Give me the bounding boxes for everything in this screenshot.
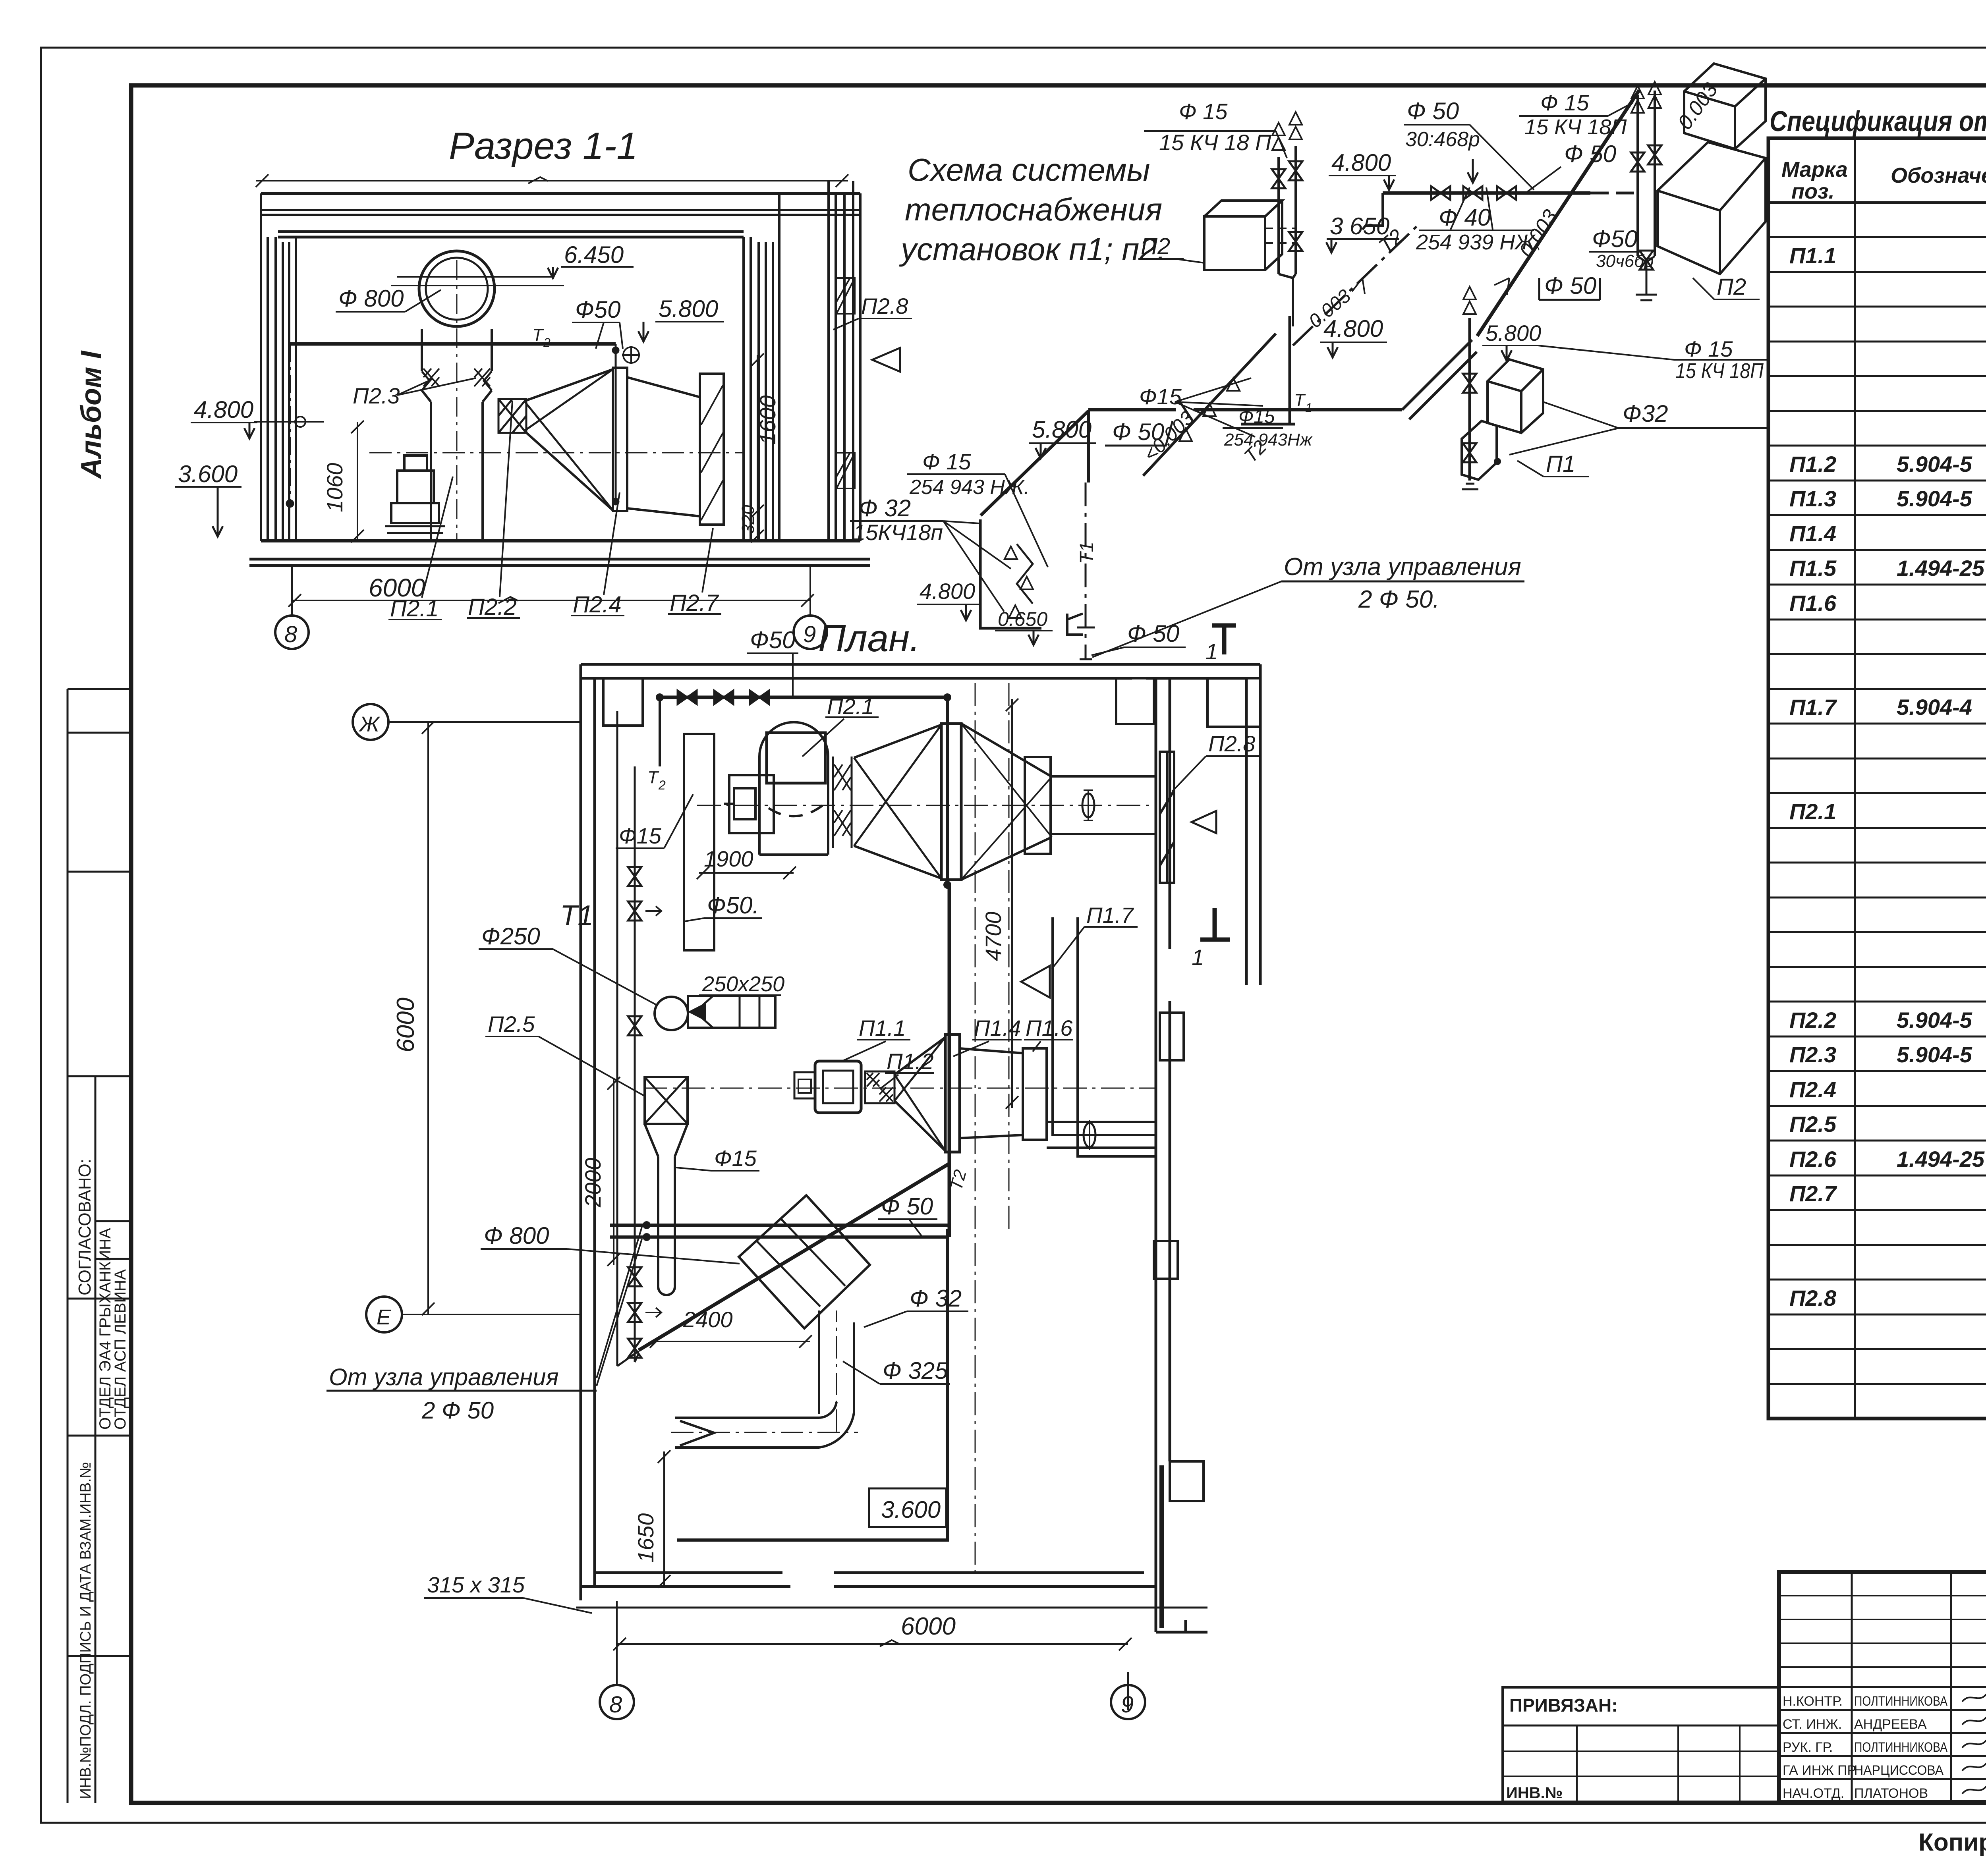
main valve pipe y486 <box>1383 191 1590 195</box>
level line 4.800 <box>254 421 324 423</box>
section marks 1-1 <box>1212 625 1236 654</box>
svg-text:Марка: Марка <box>1781 158 1848 181</box>
svg-text:Ф 50: Ф 50 <box>1127 620 1179 647</box>
view triangle right <box>872 348 900 372</box>
svg-text:Ф250: Ф250 <box>481 923 540 950</box>
svg-text:План.: План. <box>818 617 920 660</box>
svg-text:ПОЛТИННИКОВА: ПОЛТИННИКОВА <box>1854 1740 1947 1755</box>
filter П2.7 <box>700 374 724 525</box>
svg-text:Ф50: Ф50 <box>750 627 795 653</box>
svg-text:8: 8 <box>609 1692 622 1718</box>
spec table rows text <box>1789 208 1986 1380</box>
svg-text:Ф 800: Ф 800 <box>338 285 404 312</box>
double diagonal to riser3 <box>1402 340 1477 419</box>
svg-text:2: 2 <box>543 336 551 350</box>
Ф800 rotated duct <box>739 1195 870 1328</box>
bottom-left duct with elbow <box>675 1402 854 1448</box>
svg-text:2: 2 <box>658 778 666 792</box>
svg-text:Ф15: Ф15 <box>1139 384 1182 409</box>
svg-text:Альбом I: Альбом I <box>75 350 107 479</box>
svg-text:254 943Нж: 254 943Нж <box>1224 430 1313 450</box>
svg-text:П1.6: П1.6 <box>1026 1015 1073 1040</box>
svg-text:Ф50: Ф50 <box>1592 226 1637 252</box>
main diagonal <box>1477 90 1639 336</box>
svg-text:П1: П1 <box>1546 451 1575 477</box>
svg-text:Ф 15: Ф 15 <box>922 449 971 474</box>
svg-text:П2: П2 <box>1717 274 1746 300</box>
svg-text:От узла управления: От узла управления <box>1284 553 1521 581</box>
grid circles Ж, Е <box>353 704 388 740</box>
ground line bottom <box>576 1607 1207 1609</box>
svg-text:Спецификация отопительно-вент: Спецификация отопительно-вентиляционных … <box>1770 106 1986 137</box>
view triangle plan <box>1192 811 1216 833</box>
svg-text:установок п1; п2.: установок п1; п2. <box>899 232 1166 267</box>
svg-text:Копировал: Аргунова: Копировал: Аргунова <box>1918 1829 1986 1856</box>
top right unit box <box>1684 64 1766 149</box>
T1 vertical drop left <box>1087 410 1090 483</box>
svg-text:Ф 50: Ф 50 <box>1407 98 1459 124</box>
svg-text:8: 8 <box>284 621 297 647</box>
svg-text:поз.: поз. <box>1791 179 1835 203</box>
svg-text:2 Ф 50: 2 Ф 50 <box>421 1397 494 1424</box>
П1.2 flex <box>865 1071 894 1103</box>
mid right П2 unit box <box>1658 142 1766 274</box>
lower T2 valves <box>628 1267 641 1286</box>
elbow under main valve pipe <box>1362 193 1383 230</box>
svg-text:4700: 4700 <box>981 911 1006 961</box>
П1 cone <box>894 1035 1155 1152</box>
top dimension line <box>256 180 848 181</box>
svg-text:НАЧ.ОТД.: НАЧ.ОТД. <box>1783 1786 1844 1801</box>
svg-text:15 КЧ 18 П: 15 КЧ 18 П <box>1159 130 1271 155</box>
svg-text:П1.1: П1.1 <box>1789 243 1836 268</box>
svg-text:П2.8: П2.8 <box>861 293 908 318</box>
svg-text:5.904-5: 5.904-5 <box>1897 486 1972 511</box>
svg-text:П1.2: П1.2 <box>1789 452 1836 477</box>
svg-text:П2.1: П2.1 <box>1789 799 1836 824</box>
motor <box>729 775 774 833</box>
right wall window panel <box>1160 752 1174 883</box>
svg-text:3.600: 3.600 <box>881 1496 941 1523</box>
heater П2.4 <box>613 368 627 511</box>
section centerline <box>369 452 743 454</box>
svg-text:30:468р: 30:468р <box>1405 128 1480 151</box>
svg-text:Схема системы: Схема системы <box>908 152 1150 187</box>
dash continuation <box>1590 192 1634 195</box>
svg-text:4.800: 4.800 <box>194 396 253 423</box>
heater flex <box>498 399 526 433</box>
svg-text:Ф 50: Ф 50 <box>1544 272 1596 299</box>
door triangle П1.7 <box>1021 966 1050 998</box>
svg-text:5.904-4: 5.904-4 <box>1897 695 1972 720</box>
labels П1.x <box>859 903 1134 1074</box>
svg-text:15 КЧ 18П: 15 КЧ 18П <box>1524 115 1627 139</box>
svg-text:5.904-5: 5.904-5 <box>1897 1007 1972 1033</box>
svg-text:П1.7: П1.7 <box>1789 695 1837 720</box>
scheme title <box>899 152 1166 267</box>
T2 pipe in section <box>254 277 619 508</box>
riser Ф325 verticals <box>819 1310 854 1414</box>
T1 riser plan <box>946 697 949 885</box>
svg-text:П2.5: П2.5 <box>488 1011 535 1036</box>
svg-text:Ж: Ж <box>358 712 381 736</box>
svg-text:250х250: 250х250 <box>702 972 784 996</box>
svg-text:2000: 2000 <box>580 1158 605 1208</box>
svg-text:Ф15: Ф15 <box>619 823 662 848</box>
spec table header text <box>1781 158 1986 203</box>
svg-text:П1.5: П1.5 <box>1789 556 1837 581</box>
П1.1 unit <box>794 1061 861 1113</box>
svg-text:Ф32: Ф32 <box>1623 400 1668 427</box>
svg-text:П1.3: П1.3 <box>1789 486 1836 511</box>
corridor duct <box>1053 917 1155 1156</box>
svg-text:1600: 1600 <box>755 395 780 445</box>
svg-text:Т1: Т1 <box>560 900 593 932</box>
svg-text:5.904-5: 5.904-5 <box>1897 452 1972 477</box>
svg-text:15 КЧ 18П: 15 КЧ 18П <box>1675 359 1764 383</box>
signatures <box>1962 1693 1986 1794</box>
svg-text:ОТДЕЛ АСП ЛЕВИНА: ОТДЕЛ АСП ЛЕВИНА <box>112 1269 129 1430</box>
svg-text:НАРЦИССОВА: НАРЦИССОВА <box>1854 1763 1943 1778</box>
bottom leader labels <box>390 590 719 621</box>
svg-text:П2: П2 <box>1141 234 1170 259</box>
fan П2.1 circle <box>419 251 495 326</box>
privyazan block <box>1503 1687 1779 1802</box>
svg-text:Ф 32: Ф 32 <box>910 1285 962 1312</box>
big duct left П2.5 <box>645 734 714 1295</box>
svg-text:П2.6: П2.6 <box>1789 1146 1837 1172</box>
svg-text:1.494-25: 1.494-25 <box>1897 1146 1985 1172</box>
П1 boxes <box>1462 359 1543 489</box>
expanding cone with X brace <box>524 368 724 525</box>
svg-text:П2.8: П2.8 <box>1789 1285 1837 1310</box>
svg-text:5.800: 5.800 <box>659 295 718 322</box>
svg-text:30ч6бр: 30ч6бр <box>1596 251 1654 271</box>
svg-text:ПОЛТИННИКОВА: ПОЛТИННИКОВА <box>1854 1694 1947 1709</box>
svg-text:Т: Т <box>1294 390 1306 410</box>
svg-text:П2.7: П2.7 <box>1789 1181 1837 1206</box>
floor slab <box>261 539 860 542</box>
svg-text:П1.4: П1.4 <box>1789 521 1836 546</box>
svg-text:5.800: 5.800 <box>1486 320 1541 345</box>
fan casing / duct down <box>422 329 492 541</box>
spec table grid <box>1768 138 1986 1419</box>
п2 left unit box <box>1204 201 1295 270</box>
svg-text:1650: 1650 <box>633 1513 658 1563</box>
damper oval <box>1082 793 1094 817</box>
svg-text:Обозначение: Обозначение <box>1891 164 1986 187</box>
top heat pipe with valves <box>660 696 947 699</box>
svg-text:1060: 1060 <box>322 463 347 512</box>
svg-text:П2.2: П2.2 <box>468 594 517 620</box>
level line 6.450 <box>397 276 553 278</box>
svg-text:Т: Т <box>647 768 659 787</box>
svg-text:П2.8: П2.8 <box>1208 731 1255 756</box>
svg-text:ИНВ.№ПОДЛ. ПОДПИСЬ И ДАТА ВЗА: ИНВ.№ПОДЛ. ПОДПИСЬ И ДАТА ВЗАМ.ИНВ.№ <box>77 1462 94 1799</box>
svg-text:Ф 15: Ф 15 <box>1179 99 1228 124</box>
svg-text:СОГЛАСОВАНО:: СОГЛАСОВАНО: <box>75 1159 95 1295</box>
svg-text:4.800: 4.800 <box>920 579 975 604</box>
plan walls <box>581 664 1260 1632</box>
svg-text:Разрез 1-1: Разрез 1-1 <box>449 125 638 167</box>
svg-text:Ф 32: Ф 32 <box>859 495 911 521</box>
svg-text:ПРИВЯЗАН:: ПРИВЯЗАН: <box>1509 1695 1618 1716</box>
svg-text:П1.1: П1.1 <box>859 1015 906 1040</box>
supply diagonal from control node <box>981 411 1088 515</box>
column window hatches <box>837 278 855 488</box>
svg-text:Ф 15: Ф 15 <box>1684 336 1733 361</box>
svg-text:5.904-5: 5.904-5 <box>1897 1042 1972 1067</box>
heater П2.4 plan <box>941 724 961 880</box>
control node zigzag cluster <box>980 519 1041 628</box>
svg-text:П2.5: П2.5 <box>1789 1112 1837 1137</box>
svg-text:П2.7: П2.7 <box>670 590 719 616</box>
svg-text:Е: Е <box>377 1305 391 1329</box>
svg-text:П2.1: П2.1 <box>390 596 439 621</box>
roof slab <box>261 192 860 195</box>
sidebar rotated captions <box>75 1159 129 1799</box>
svg-text:СТ. ИНЖ.: СТ. ИНЖ. <box>1783 1717 1842 1732</box>
svg-text:П1.4: П1.4 <box>974 1015 1021 1040</box>
svg-text:1: 1 <box>1206 639 1218 664</box>
svg-text:П2.4: П2.4 <box>573 592 622 618</box>
svg-text:П1.7: П1.7 <box>1086 903 1134 928</box>
svg-text:От узла управления: От узла управления <box>329 1364 559 1390</box>
svg-text:Н.КОНТР.: Н.КОНТР. <box>1783 1694 1843 1709</box>
svg-text:Т1: Т1 <box>1076 542 1097 564</box>
svg-text:3.600: 3.600 <box>178 461 238 487</box>
pilasters <box>603 678 1260 1501</box>
svg-text:П2.2: П2.2 <box>1789 1007 1836 1033</box>
svg-text:Ф15: Ф15 <box>1238 406 1275 427</box>
title block outer <box>1779 1572 1986 1802</box>
round duct Ф250 with branch <box>655 997 688 1030</box>
plan centerline mid <box>643 1088 1155 1089</box>
svg-text:ГА ИНЖ ПР: ГА ИНЖ ПР <box>1783 1763 1856 1778</box>
3.600 box <box>869 1488 946 1527</box>
svg-text:Ф 325: Ф 325 <box>883 1357 948 1384</box>
svg-text:П2.4: П2.4 <box>1789 1077 1836 1102</box>
title block texts <box>1783 1602 1986 1801</box>
T2 pipes left <box>617 711 635 1366</box>
cone 1 with X <box>854 724 1155 880</box>
svg-text:5.800: 5.800 <box>1032 416 1092 443</box>
svg-text:ПЛАТОНОВ: ПЛАТОНОВ <box>1854 1786 1928 1801</box>
svg-text:П2.1: П2.1 <box>827 694 874 719</box>
plan centerline top <box>697 805 1155 806</box>
svg-text:6000: 6000 <box>392 998 419 1052</box>
T1 horizontal run <box>1088 408 1402 411</box>
riser 3 (П1) <box>1468 318 1471 481</box>
svg-text:1.494-25: 1.494-25 <box>1897 556 1985 581</box>
svg-text:1: 1 <box>1305 401 1312 415</box>
riser cluster left <box>1279 146 1296 326</box>
svg-text:АНДРЕЕВА: АНДРЕЕВА <box>1854 1717 1927 1732</box>
svg-text:2400: 2400 <box>683 1307 733 1332</box>
cone 2 <box>961 724 1052 880</box>
flex П2.2 plan <box>833 757 852 848</box>
fan centerline <box>456 260 458 541</box>
right outer column <box>829 181 860 541</box>
svg-text:Ф50.: Ф50. <box>707 892 759 919</box>
motor П2.2 <box>385 455 445 533</box>
svg-text:Ф 40: Ф 40 <box>1439 204 1491 231</box>
right wall <box>744 193 779 541</box>
left riser triangle cluster <box>1143 316 1295 476</box>
svg-text:Ф50: Ф50 <box>575 296 620 323</box>
svg-text:Т: Т <box>532 325 544 345</box>
grid circle 9 <box>794 616 827 649</box>
sidebar stamp strip <box>68 689 131 1803</box>
svg-text:П1.2: П1.2 <box>887 1049 933 1074</box>
svg-text:6000: 6000 <box>901 1613 956 1640</box>
svg-text:Ф 15: Ф 15 <box>1540 90 1589 115</box>
svg-text:П1.6: П1.6 <box>1789 591 1837 616</box>
svg-text:Ф15: Ф15 <box>714 1146 757 1171</box>
svg-text:9: 9 <box>803 621 816 647</box>
svg-text:4.800: 4.800 <box>1331 149 1391 176</box>
T2 drop diagonal <box>1293 223 1420 345</box>
bottom dimension 6000 <box>292 600 810 601</box>
svg-text:2 Ф 50.: 2 Ф 50. <box>1358 586 1439 613</box>
svg-text:ИНВ.№: ИНВ.№ <box>1506 1784 1563 1802</box>
left wall <box>261 193 296 541</box>
svg-text:Ф 800: Ф 800 <box>484 1222 549 1249</box>
fan П2.1 plan <box>724 722 828 855</box>
grid circles 8,9 plan <box>600 1685 634 1719</box>
svg-text:П2.3: П2.3 <box>353 383 400 408</box>
svg-text:320: 320 <box>738 505 758 534</box>
svg-text:1: 1 <box>1192 945 1204 970</box>
svg-text:315 х 315: 315 х 315 <box>427 1572 525 1597</box>
svg-text:0.650: 0.650 <box>998 608 1047 630</box>
svg-text:П2.3: П2.3 <box>1789 1042 1836 1067</box>
vertical centerlines plan <box>975 683 976 1573</box>
top-right risers <box>1638 91 1655 256</box>
svg-text:теплоснабжения: теплоснабжения <box>905 192 1162 227</box>
svg-text:6.450: 6.450 <box>564 241 624 268</box>
svg-text:Ф 50: Ф 50 <box>881 1193 933 1220</box>
svg-text:4.800: 4.800 <box>1323 315 1383 342</box>
svg-text:15КЧ18п: 15КЧ18п <box>853 520 943 545</box>
svg-text:3 650: 3 650 <box>1330 213 1389 239</box>
svg-text:РУК. ГР.: РУК. ГР. <box>1783 1740 1833 1755</box>
grid circle 8 <box>275 616 309 649</box>
svg-text:1900: 1900 <box>704 846 753 871</box>
